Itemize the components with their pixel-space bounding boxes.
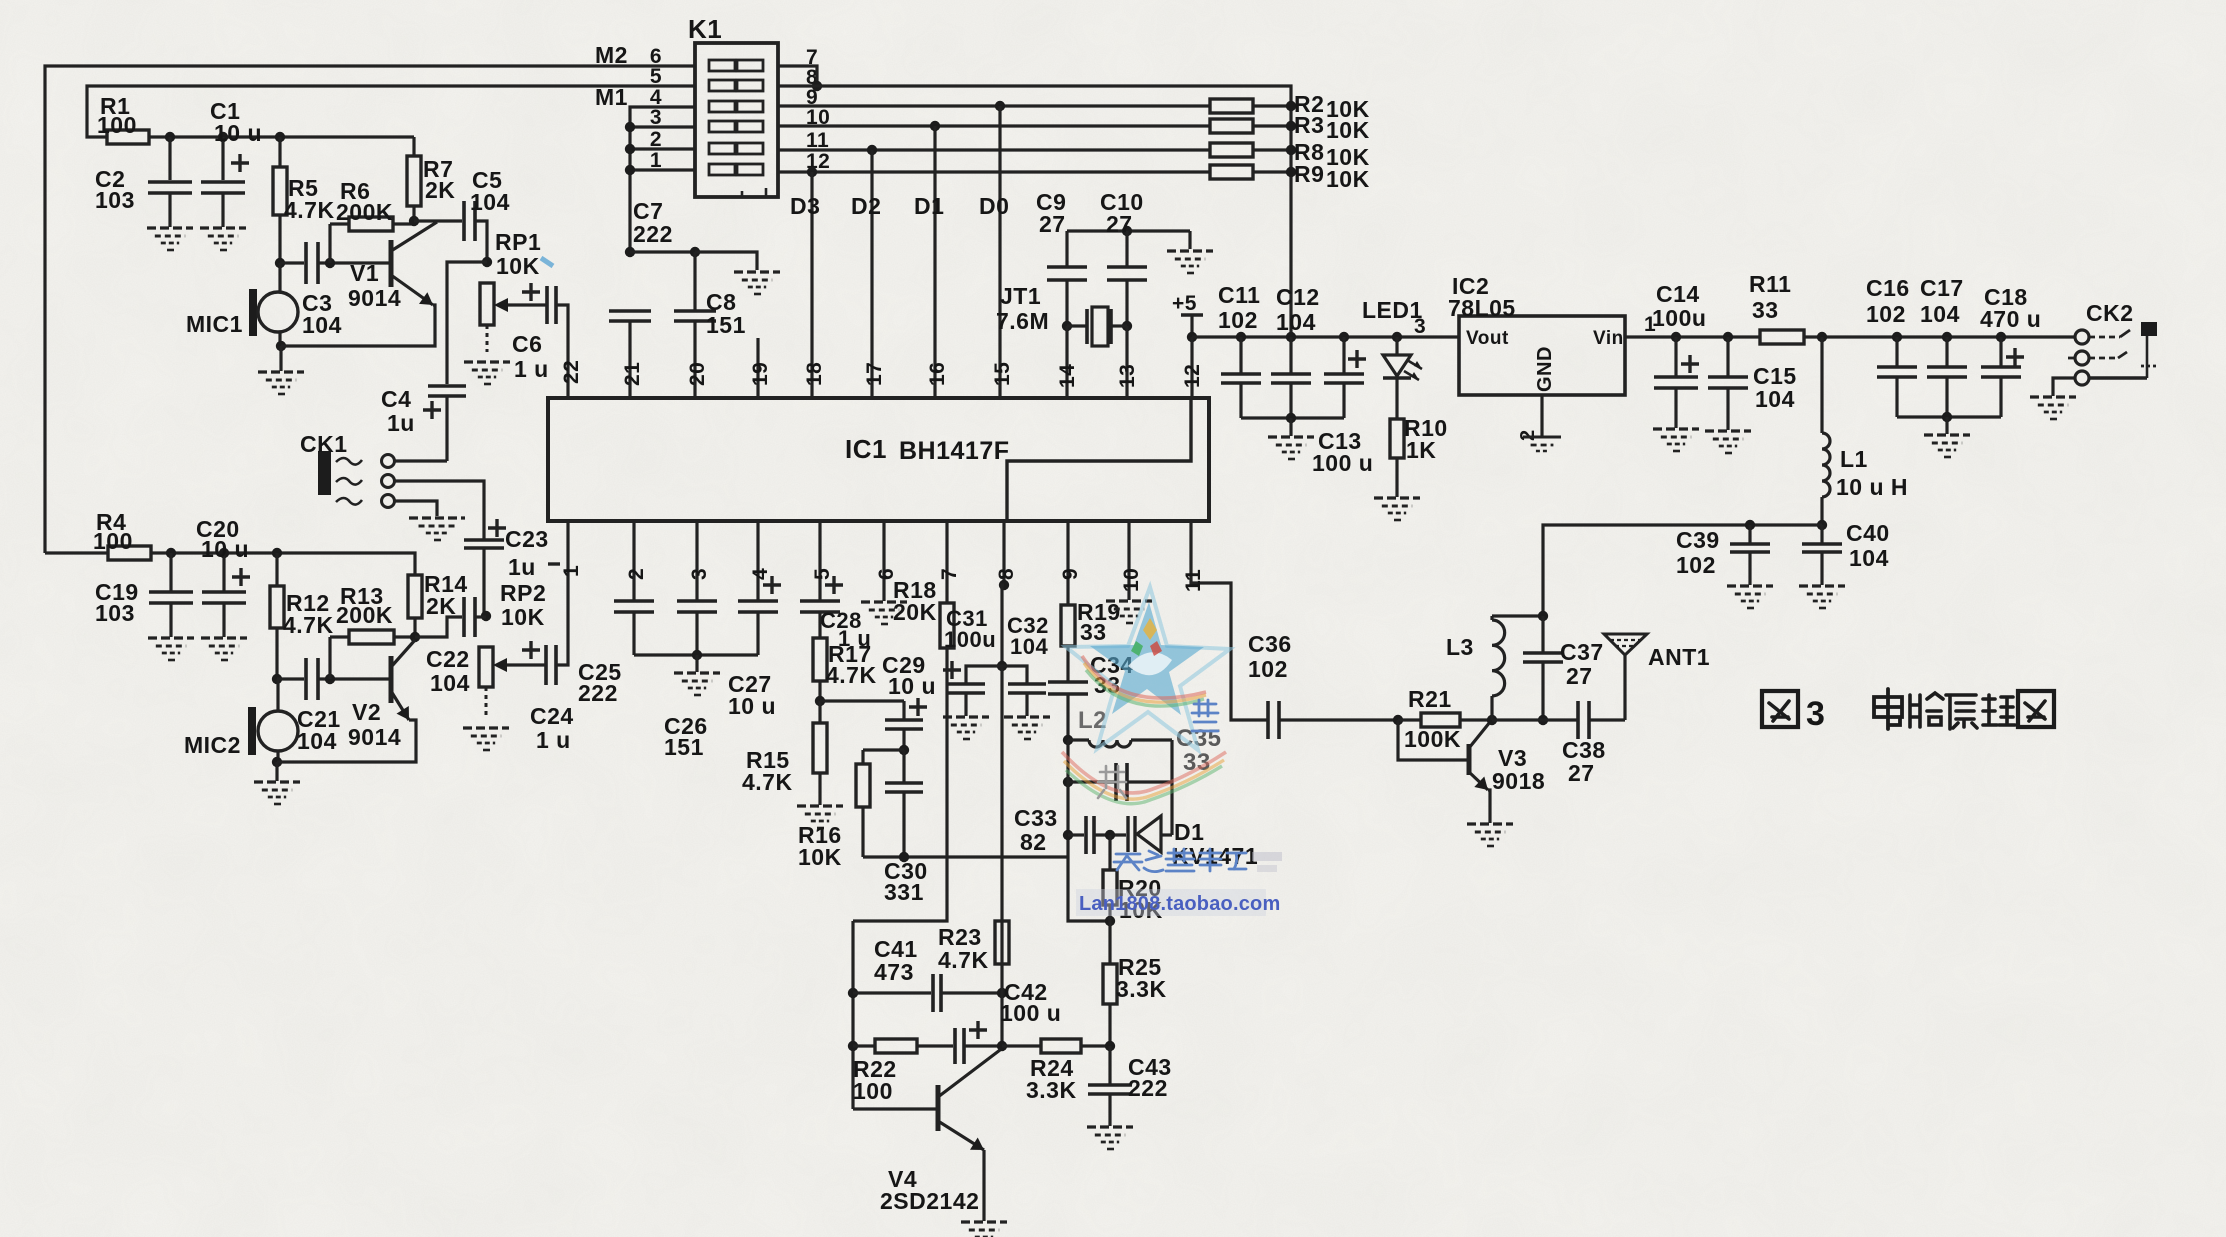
svg-text:CK1: CK1 bbox=[300, 431, 348, 457]
svg-text:13: 13 bbox=[1116, 364, 1139, 388]
svg-text:11: 11 bbox=[1182, 569, 1205, 592]
svg-text:104: 104 bbox=[1755, 386, 1795, 412]
svg-text:4.7K: 4.7K bbox=[283, 612, 334, 638]
svg-text:8: 8 bbox=[995, 568, 1018, 580]
capacitor C16 bbox=[1895, 337, 1898, 367]
node crystal right bbox=[1122, 321, 1132, 331]
inductor L2 bbox=[1068, 738, 1089, 741]
resistor R20 bbox=[1108, 835, 1111, 870]
microphone MIC1 bbox=[249, 289, 257, 336]
svg-text:200K: 200K bbox=[336, 602, 393, 628]
svg-text:82: 82 bbox=[1020, 829, 1047, 855]
capacitor C24 electrolytic bbox=[544, 645, 548, 685]
wire node to R16 bbox=[863, 748, 904, 751]
node RP2 top bbox=[481, 611, 491, 621]
wire C8 node to ground bbox=[695, 252, 757, 270]
capacitor C10 bbox=[1125, 231, 1128, 267]
svg-text:104: 104 bbox=[302, 312, 342, 338]
svg-text:1u: 1u bbox=[387, 410, 415, 436]
svg-text:20K: 20K bbox=[893, 599, 937, 625]
capacitor C22 bbox=[462, 597, 466, 637]
wire IC2 pin2 ground bbox=[1540, 395, 1543, 437]
node L1 bottom bbox=[1817, 520, 1827, 530]
crystal JT1 7.6M bbox=[1067, 324, 1087, 327]
node C10 top bbox=[1122, 226, 1132, 236]
capacitor C21 bbox=[304, 658, 308, 700]
svg-text:10K: 10K bbox=[496, 253, 540, 279]
svg-text:9018: 9018 bbox=[1492, 768, 1545, 794]
K1 pin1 stub bbox=[630, 168, 695, 171]
CK1 contact 1 bbox=[382, 455, 395, 468]
wire left branch column bbox=[851, 921, 854, 1109]
wire C33 stub bbox=[1068, 833, 1084, 836]
node D1 bbox=[930, 121, 940, 131]
title char 2 bbox=[1910, 693, 1943, 727]
svg-text:3.3K: 3.3K bbox=[1116, 976, 1167, 1002]
K1 switch element row 6 bbox=[709, 60, 735, 71]
wire C4 to CK1 bbox=[445, 396, 448, 461]
wire L1 bottom to V3 supply bbox=[1543, 525, 1822, 614]
capacitor C12 bbox=[1289, 337, 1292, 374]
node R12 bbox=[272, 548, 282, 558]
svg-text:7: 7 bbox=[938, 568, 961, 580]
svg-text:L3: L3 bbox=[1446, 634, 1474, 660]
node R24/C43 bbox=[1105, 1041, 1115, 1051]
node MIC1 top bbox=[275, 258, 285, 268]
ground RP1 bbox=[486, 325, 489, 352]
wire C6 to IC1 pin22 bbox=[556, 305, 568, 398]
ground pin6 bbox=[861, 600, 907, 603]
wire M2 row from K1 pin6 to left edge bbox=[45, 66, 695, 553]
node pin8 jog bbox=[999, 580, 1009, 590]
svg-text:C40: C40 bbox=[1846, 520, 1890, 546]
svg-text:100 u: 100 u bbox=[1000, 1000, 1061, 1026]
wire R23 column bbox=[1000, 921, 1003, 964]
node R6 left bbox=[325, 258, 335, 268]
svg-text:Lan1808.taobao.com: Lan1808.taobao.com bbox=[1079, 893, 1280, 915]
ground near C8 bbox=[734, 270, 780, 273]
node C17 ground bbox=[1942, 412, 1952, 422]
jack CK1 body bbox=[318, 451, 331, 495]
svg-text:104: 104 bbox=[1849, 545, 1889, 571]
resistor R5 bbox=[278, 137, 281, 167]
ground CK2 bbox=[2030, 395, 2076, 398]
node L3 top / C37 top bbox=[1538, 611, 1548, 621]
node D0 bbox=[995, 101, 1005, 111]
K1 switch element row 4 bbox=[709, 101, 735, 112]
wire IC1 pin10 to ground bbox=[1127, 521, 1130, 600]
svg-text:+5: +5 bbox=[1172, 292, 1197, 315]
ground C39 bbox=[1727, 584, 1773, 587]
resistor R12 bbox=[275, 553, 278, 586]
resistor R21 bbox=[1421, 713, 1460, 727]
node RP1 top bbox=[482, 257, 492, 267]
capacitor C7 bbox=[609, 309, 651, 313]
varactor diode D1 KV1471 bbox=[1126, 816, 1129, 852]
svg-text:4.7K: 4.7K bbox=[826, 662, 877, 688]
ground MIC2 bbox=[275, 762, 278, 781]
wire C22 to RP2 node bbox=[475, 615, 486, 618]
wire IC1 pin12 bbox=[1190, 337, 1193, 398]
node C37 bottom bbox=[1538, 715, 1548, 725]
wire R12 to MIC2 node bbox=[275, 628, 278, 679]
watermark url text bbox=[1076, 889, 1266, 916]
node C30 bottom bbox=[902, 792, 905, 857]
node C42/R24/V4 collector bbox=[997, 1041, 1007, 1051]
wire row12 / D3 bbox=[778, 170, 1210, 173]
node C15 bbox=[1723, 332, 1733, 342]
wire node to C22 bbox=[415, 617, 462, 637]
svg-text:D0: D0 bbox=[979, 193, 1009, 219]
svg-text:10K: 10K bbox=[501, 604, 545, 630]
wire C25-C26-C27 common bbox=[634, 653, 758, 656]
ground C40 bbox=[1799, 584, 1845, 587]
resistor R23 bbox=[995, 921, 1009, 964]
transistor V2 9014 bbox=[389, 656, 394, 703]
node ground C12 bbox=[1286, 413, 1296, 423]
svg-text:RP1: RP1 bbox=[495, 229, 541, 255]
svg-text:100u: 100u bbox=[1652, 305, 1706, 331]
node C41 left bbox=[848, 988, 858, 998]
svg-text:R9: R9 bbox=[1294, 161, 1324, 187]
wire CK1 c3 to ground bbox=[395, 501, 437, 516]
svg-text:104: 104 bbox=[1920, 301, 1960, 327]
K1 switch element row 1 bbox=[709, 164, 735, 175]
transistor V4 2SD2142 bbox=[853, 1107, 936, 1110]
svg-text:BH1417F: BH1417F bbox=[899, 437, 1010, 465]
svg-text:M2: M2 bbox=[595, 42, 628, 68]
node C26 ground bbox=[692, 650, 702, 660]
svg-text:10 u: 10 u bbox=[201, 536, 249, 562]
svg-text:2K: 2K bbox=[425, 177, 455, 203]
ground C32 bbox=[1025, 693, 1028, 716]
svg-text:10K: 10K bbox=[798, 844, 842, 870]
svg-text:200K: 200K bbox=[336, 199, 393, 225]
svg-text:33: 33 bbox=[1080, 619, 1107, 645]
wire node to C5 bbox=[414, 219, 462, 222]
capacitor C37 bbox=[1541, 616, 1544, 653]
IC1 internal step wire pin12 bbox=[1007, 398, 1191, 519]
wire D1 to IC1 pin16 bbox=[933, 126, 936, 398]
svg-text:104: 104 bbox=[430, 670, 470, 696]
svg-text:103: 103 bbox=[95, 600, 135, 626]
title char 5 bbox=[2018, 691, 2054, 727]
ground C15 bbox=[1705, 429, 1751, 432]
svg-text:7.6M: 7.6M bbox=[996, 308, 1049, 334]
resistor R22 bbox=[853, 1044, 875, 1047]
ground R10 bbox=[1395, 458, 1398, 497]
K1 actuator mark bbox=[742, 188, 766, 197]
svg-text:2: 2 bbox=[625, 568, 648, 580]
node R21 left bbox=[1393, 715, 1403, 725]
wire IC1 pin13 bbox=[1125, 326, 1128, 398]
wire D0 to IC1 pin15 bbox=[998, 106, 1001, 398]
wire CK1 c2 to C23 bbox=[395, 481, 484, 540]
svg-text:C33: C33 bbox=[1014, 805, 1058, 831]
node C7 bbox=[625, 247, 635, 257]
LED LED1 bbox=[1395, 337, 1398, 355]
svg-text:27: 27 bbox=[1566, 663, 1593, 689]
node D3 bbox=[807, 167, 817, 177]
ground C2 bbox=[147, 226, 193, 229]
capacitor C2 bbox=[168, 137, 171, 180]
svg-text:10: 10 bbox=[1120, 568, 1143, 592]
svg-text:3: 3 bbox=[1414, 315, 1426, 338]
svg-text:331: 331 bbox=[884, 879, 924, 905]
svg-text:K1: K1 bbox=[688, 14, 722, 44]
svg-text:9014: 9014 bbox=[348, 285, 401, 311]
wire IC1 pin7 bbox=[945, 521, 948, 603]
svg-text:MIC2: MIC2 bbox=[184, 732, 241, 758]
wire R19 to C34 bbox=[1066, 646, 1069, 682]
svg-text:3.3K: 3.3K bbox=[1026, 1077, 1077, 1103]
svg-text:104: 104 bbox=[470, 189, 510, 215]
wire node to C29 bbox=[820, 699, 904, 702]
potentiometer RP2 bbox=[479, 647, 493, 687]
svg-text:Vout: Vout bbox=[1466, 328, 1509, 349]
wire R5 to MIC1/C3 node bbox=[278, 215, 281, 263]
node tank top left bbox=[1063, 735, 1073, 745]
svg-text:20: 20 bbox=[686, 362, 709, 386]
svg-text:9: 9 bbox=[1059, 568, 1082, 580]
capacitor C4 electrolytic bbox=[428, 384, 466, 388]
svg-text:C39: C39 bbox=[1676, 527, 1720, 553]
svg-text:9014: 9014 bbox=[348, 724, 401, 750]
transistor V3 9018 bbox=[1467, 744, 1472, 775]
node R20/R25 bbox=[1105, 916, 1115, 926]
svg-text:2SD2142: 2SD2142 bbox=[880, 1188, 979, 1214]
node C14 bbox=[1671, 332, 1681, 342]
svg-text:5: 5 bbox=[811, 568, 834, 580]
svg-text:C17: C17 bbox=[1920, 275, 1964, 301]
resistor R11 bbox=[1760, 330, 1804, 344]
wire pin8 node down to R23 bbox=[1000, 666, 1003, 921]
resistor R7 bbox=[412, 137, 415, 156]
wire K1 pin7 jog to pin8 row bbox=[778, 66, 817, 86]
wire C24 to IC1 pin1 bbox=[556, 521, 568, 665]
svg-text:C14: C14 bbox=[1656, 281, 1700, 307]
IC1 pin19 stub bbox=[756, 338, 759, 398]
wire R4 to R14 node bbox=[151, 553, 415, 575]
wire D2 to IC1 pin17 bbox=[870, 150, 873, 398]
antenna ANT1 bbox=[1604, 634, 1647, 655]
ground V4 bbox=[961, 1220, 1007, 1223]
svg-text:22: 22 bbox=[560, 360, 583, 384]
svg-text:12: 12 bbox=[1181, 364, 1204, 388]
ground C20 bbox=[201, 636, 247, 639]
K1 switch element row 2 bbox=[709, 143, 735, 154]
node R23/C41 bbox=[997, 988, 1007, 998]
wire pin8 row to R network column bbox=[778, 86, 1291, 337]
svg-text:104: 104 bbox=[1010, 634, 1048, 659]
ground C1 bbox=[200, 226, 246, 229]
svg-text:GND: GND bbox=[1534, 346, 1556, 392]
svg-text:100: 100 bbox=[97, 112, 137, 138]
svg-text:104: 104 bbox=[1276, 309, 1316, 335]
svg-text:CK2: CK2 bbox=[2086, 300, 2134, 326]
wire C33 to D1 node bbox=[1094, 833, 1126, 836]
capacitor C17 bbox=[1945, 337, 1948, 367]
wire C5 to RP1 top bbox=[475, 221, 487, 262]
capacitor C39 bbox=[1748, 525, 1751, 544]
ground C31 bbox=[964, 693, 967, 716]
svg-text:100 u: 100 u bbox=[1312, 450, 1373, 476]
svg-text:222: 222 bbox=[1128, 1075, 1168, 1101]
wire tank column to R20/R25 node bbox=[1068, 857, 1110, 921]
inductor L3 bbox=[1492, 614, 1543, 617]
resistor R10 bbox=[1395, 378, 1398, 419]
capacitor C38 bbox=[1576, 701, 1580, 739]
watermark small dots bbox=[1252, 852, 1282, 861]
node C12 bbox=[1286, 332, 1296, 342]
watermark char lan bbox=[1192, 700, 1218, 731]
svg-text:IC1: IC1 bbox=[845, 434, 887, 464]
svg-text:27: 27 bbox=[1106, 211, 1133, 237]
wire IC1 pin6 to ground bbox=[882, 521, 885, 601]
wire to antenna bbox=[1623, 655, 1626, 720]
svg-text:102: 102 bbox=[1218, 307, 1258, 333]
resistor R4 bbox=[108, 546, 151, 560]
svg-text:M1: M1 bbox=[595, 84, 628, 110]
svg-text:100K: 100K bbox=[1404, 726, 1461, 752]
wire V3 emitter to ground bbox=[1488, 790, 1490, 823]
svg-text:10 u H: 10 u H bbox=[1836, 474, 1908, 500]
ground MIC1 bbox=[279, 346, 282, 371]
svg-text:151: 151 bbox=[664, 734, 704, 760]
capacitor C41 bbox=[853, 991, 931, 994]
node V3 collector bbox=[1487, 715, 1497, 725]
resistor R16 bbox=[861, 750, 864, 764]
wire Vin to CK2 rail bbox=[1625, 335, 1760, 338]
resistor R2 bbox=[1210, 99, 1253, 113]
watermark logo star bbox=[1062, 587, 1282, 916]
svg-text:5: 5 bbox=[650, 65, 662, 88]
capacitor C30 bbox=[902, 750, 905, 783]
node crystal left bbox=[1062, 321, 1072, 331]
svg-text:473: 473 bbox=[874, 959, 914, 985]
svg-text:102: 102 bbox=[1866, 301, 1906, 327]
svg-text:16: 16 bbox=[926, 362, 949, 386]
wire IC1 pin14 bbox=[1065, 326, 1068, 398]
svg-text:4.7K: 4.7K bbox=[938, 947, 989, 973]
capacitor C23 electrolytic bbox=[464, 538, 504, 542]
node C11 bbox=[1236, 332, 1246, 342]
IC IC2 78L05 body bbox=[1459, 316, 1625, 395]
wire tank right down bbox=[1170, 740, 1173, 782]
svg-text:1K: 1K bbox=[1406, 437, 1436, 463]
microphone MIC2 bbox=[248, 707, 256, 755]
capacitor C26 bbox=[677, 599, 717, 603]
wire R18 down to V4 branch bbox=[853, 648, 947, 921]
svg-text:4: 4 bbox=[749, 568, 772, 580]
capacitor C33 bbox=[1084, 816, 1088, 854]
svg-text:10 u: 10 u bbox=[888, 673, 936, 699]
node C29/C30/R16 bbox=[899, 745, 909, 755]
IC IC1 BH1417F body bbox=[548, 398, 1209, 521]
K1 pin2 stub bbox=[630, 147, 695, 150]
watermark swirl arcs bbox=[1082, 656, 1206, 698]
svg-text:151: 151 bbox=[706, 312, 746, 338]
capacitor C43 bbox=[1108, 1046, 1111, 1085]
resistor R8 bbox=[1210, 143, 1253, 157]
wire IC1 pin2 bbox=[632, 521, 635, 601]
svg-text:L1: L1 bbox=[1840, 446, 1868, 472]
svg-text:222: 222 bbox=[578, 680, 618, 706]
node C31/C32 bbox=[997, 661, 1007, 671]
svg-text:ANT1: ANT1 bbox=[1648, 644, 1710, 670]
ground V3 bbox=[1467, 822, 1513, 825]
svg-text:27: 27 bbox=[1568, 760, 1595, 786]
node +5 rail pin12 bbox=[1187, 332, 1197, 342]
resistor R9 bbox=[1210, 165, 1253, 179]
svg-text:V1: V1 bbox=[350, 260, 379, 286]
svg-text:D3: D3 bbox=[790, 193, 820, 219]
wire R16/C30 bottom rail bbox=[861, 807, 864, 857]
wire D3 to IC1 pin18 bbox=[810, 172, 813, 398]
svg-text:222: 222 bbox=[633, 221, 673, 247]
svg-text:18: 18 bbox=[803, 362, 826, 386]
wire IC1 pin3 bbox=[695, 521, 698, 601]
node MIC2 bottom bbox=[272, 757, 282, 767]
capacitor C13 electrolytic bbox=[1342, 337, 1345, 374]
capacitor C25 bbox=[614, 599, 654, 603]
K1 pin3 stub bbox=[630, 125, 695, 128]
svg-text:D2: D2 bbox=[851, 193, 881, 219]
title char 3 bbox=[1946, 695, 1977, 729]
node D2 bbox=[867, 145, 877, 155]
svg-text:10 u: 10 u bbox=[214, 120, 262, 146]
svg-text:D1: D1 bbox=[1174, 819, 1204, 845]
ground C11-C13 bbox=[1289, 418, 1292, 436]
capacitor C5 bbox=[462, 201, 466, 241]
svg-text:4.7K: 4.7K bbox=[742, 769, 793, 795]
wire V4 emitter to ground bbox=[982, 1150, 985, 1221]
svg-text:1u: 1u bbox=[508, 554, 536, 580]
transistor V1 9014 bbox=[389, 240, 394, 287]
node MIC1 bottom bbox=[276, 341, 286, 351]
capacitor C42 electrolytic bbox=[917, 1044, 953, 1047]
wire R1 to R7 node bbox=[149, 135, 414, 138]
node pin8 row bbox=[812, 81, 822, 91]
svg-text:3: 3 bbox=[688, 568, 711, 580]
svg-text:10K: 10K bbox=[1326, 166, 1370, 192]
node R7/R6/C5/V1 collector bbox=[409, 216, 419, 226]
svg-text:C37: C37 bbox=[1560, 639, 1604, 665]
wire V1 emitter to MIC1 ground node bbox=[281, 305, 435, 346]
node tank bottom left bbox=[1063, 777, 1073, 787]
resistor R19 bbox=[1061, 605, 1075, 646]
ground pin10 bbox=[1106, 599, 1152, 602]
node C1 bbox=[218, 132, 228, 142]
capacitor C28 electrolytic bbox=[800, 599, 840, 603]
ground C14 bbox=[1653, 427, 1699, 430]
svg-text:C22: C22 bbox=[426, 646, 470, 672]
wire row10 / D1 bbox=[778, 124, 1210, 127]
svg-text:C6: C6 bbox=[512, 331, 542, 357]
ground CK1 bbox=[409, 516, 465, 519]
watermark char gong bbox=[1098, 766, 1126, 798]
potentiometer RP1 bbox=[480, 283, 494, 325]
capacitor C40 bbox=[1820, 525, 1823, 544]
wire R21 bypass to V3 base bbox=[1398, 720, 1469, 760]
wire R25 to R24 node bbox=[1108, 1004, 1111, 1046]
wire D1 right up to tank bbox=[1170, 782, 1173, 835]
K1 switch element row 3 bbox=[709, 121, 735, 132]
capacitor C6 electrolytic bbox=[545, 286, 549, 324]
capacitor C14 electrolytic bbox=[1674, 337, 1677, 377]
svg-text:103: 103 bbox=[95, 187, 135, 213]
wire C16-C18 bottoms bbox=[1897, 415, 2001, 418]
